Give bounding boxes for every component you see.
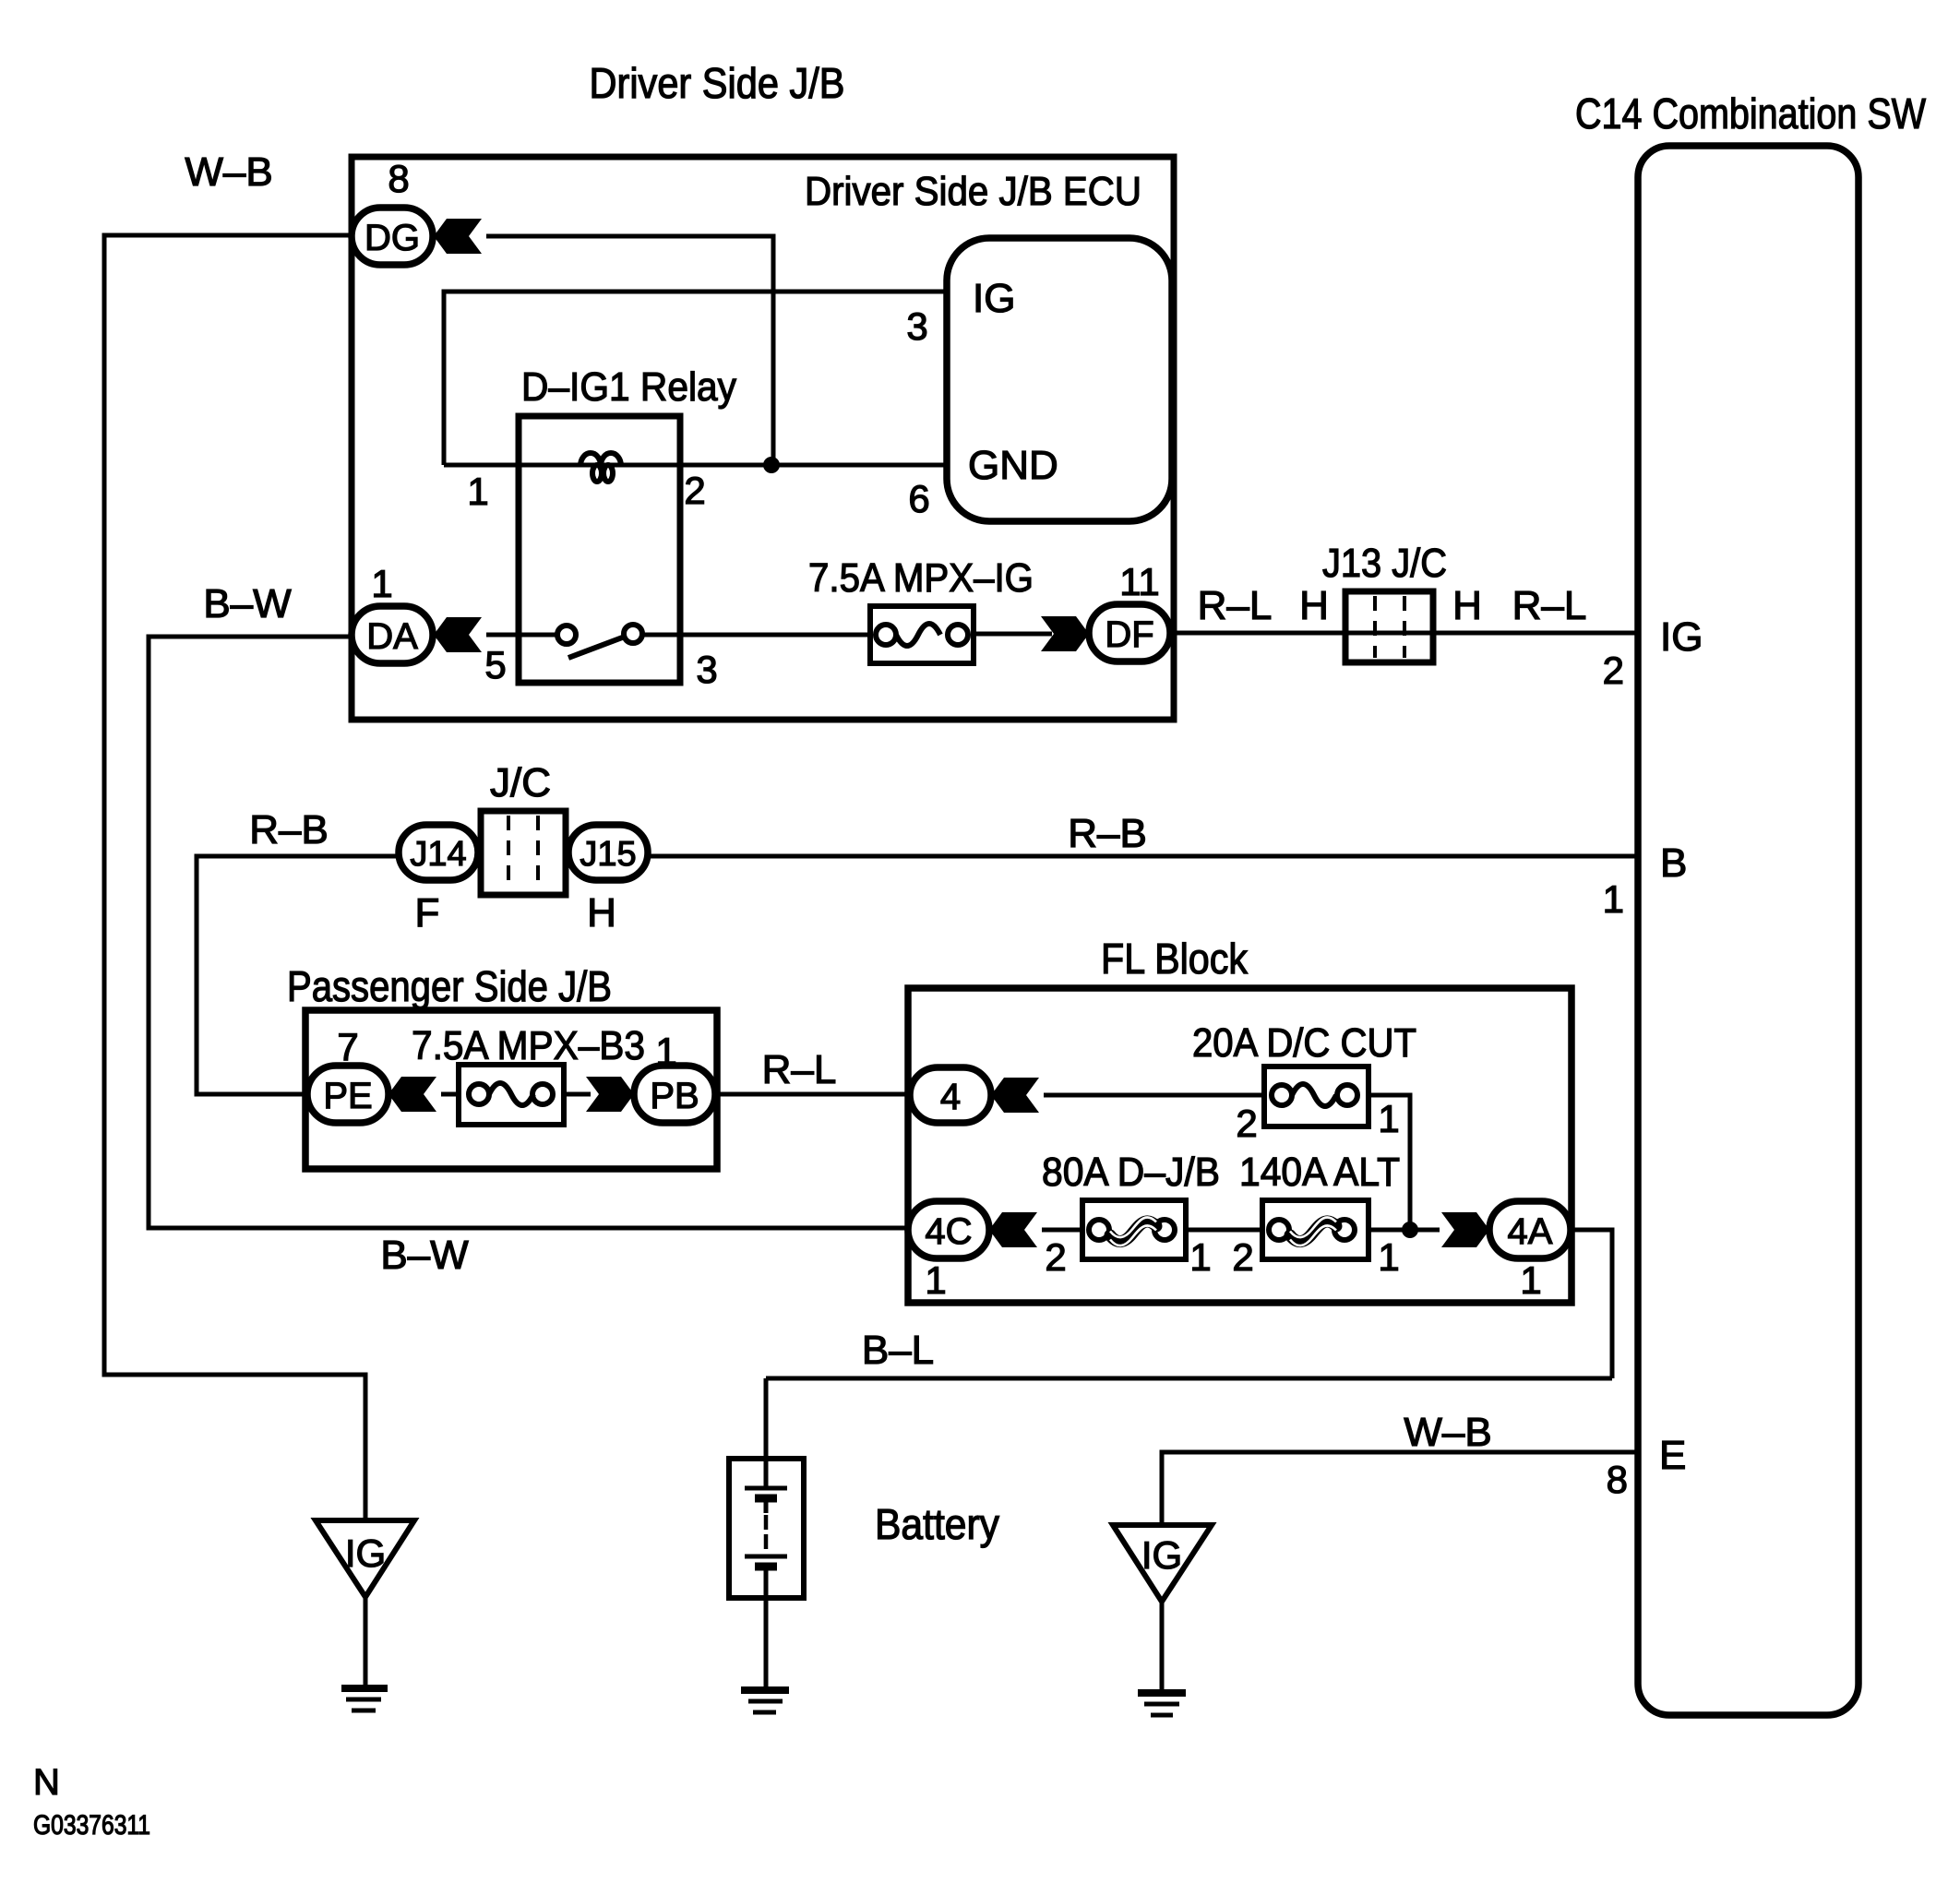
svg-text:GND: GND: [968, 443, 1058, 488]
svg-text:1: 1: [371, 562, 392, 605]
arrow into DF: [1041, 616, 1089, 651]
relay switch contacts: [557, 625, 642, 658]
connector 4: [910, 1067, 991, 1123]
svg-text:1: 1: [925, 1258, 946, 1302]
relay D-IG1 box: [519, 416, 680, 683]
svg-text:R–B: R–B: [1068, 811, 1147, 856]
wire relay coil line to ECU GND pin 6: [444, 463, 947, 468]
svg-text:D–IG1 Relay: D–IG1 Relay: [521, 364, 736, 410]
wire DG to junction and down: [486, 236, 773, 463]
svg-text:H: H: [1299, 583, 1329, 628]
wire 20A fuse to junction at 4A: [1368, 1095, 1410, 1230]
svg-text:2: 2: [684, 469, 705, 512]
svg-text:4A: 4A: [1508, 1211, 1553, 1252]
arrow into PB: [586, 1077, 634, 1112]
junction connector J/C box: [481, 811, 566, 895]
svg-text:B–L: B–L: [862, 1328, 934, 1373]
arrow into 4A: [1441, 1212, 1489, 1247]
svg-text:140A ALT: 140A ALT: [1239, 1150, 1400, 1195]
svg-text:IG: IG: [973, 276, 1015, 321]
wire PE arrow to fuse: [441, 1092, 459, 1097]
wire 80A to 140A: [1186, 1228, 1262, 1233]
svg-text:1: 1: [1378, 1097, 1399, 1140]
svg-text:2: 2: [1232, 1235, 1253, 1279]
connector J15: [568, 825, 648, 880]
connector DG: [352, 208, 433, 265]
svg-text:3: 3: [906, 304, 927, 348]
connector 4A: [1489, 1201, 1571, 1258]
junction node dot: [763, 457, 780, 473]
battery BAT1: [729, 1459, 804, 1598]
wire left IG triangle to ground: [364, 1597, 368, 1686]
wire DA arrow to relay switch: [486, 633, 557, 638]
svg-text:J14: J14: [410, 835, 466, 874]
svg-text:IG: IG: [1141, 1533, 1182, 1577]
junction connector J13: [1345, 591, 1433, 662]
svg-text:B: B: [1660, 840, 1687, 886]
wire R-B left segment down to PE: [197, 856, 399, 1094]
wire W-B from DG down to left IG ground triangle: [104, 235, 365, 1520]
connector PE: [307, 1066, 388, 1123]
connector J14: [399, 825, 478, 880]
right IG ground triangle: [1113, 1525, 1212, 1602]
svg-text:11: 11: [1119, 560, 1160, 603]
svg-text:1: 1: [1378, 1235, 1399, 1279]
wire 4C arrow to 80A fuse: [1042, 1228, 1082, 1233]
wire J15 to combination switch B pin 1: [648, 854, 1638, 859]
arrow into DA: [434, 617, 482, 652]
svg-text:E: E: [1659, 1433, 1686, 1478]
wire fuse to DF arrow: [974, 632, 1052, 637]
arrow into DG: [434, 219, 482, 254]
wire B-L battery feed: [766, 1376, 1612, 1381]
svg-text:FL Block: FL Block: [1101, 935, 1249, 983]
wire relay coil pin1 loop to ECU IG pin 3: [444, 292, 947, 465]
svg-text:C14 Combination SW: C14 Combination SW: [1575, 89, 1926, 137]
FL Block box: [908, 988, 1572, 1303]
svg-text:IG: IG: [345, 1531, 386, 1575]
svg-text:B–W: B–W: [203, 581, 292, 626]
svg-text:5: 5: [484, 643, 506, 686]
Driver Side J/B box: [352, 157, 1174, 720]
ECU IG/GND block U1: [947, 238, 1172, 521]
svg-text:1: 1: [1520, 1258, 1541, 1302]
svg-text:1: 1: [467, 470, 488, 513]
left IG ground triangle: [316, 1520, 414, 1597]
svg-text:R–L: R–L: [762, 1047, 837, 1092]
svg-text:4: 4: [940, 1077, 961, 1117]
svg-text:R–L: R–L: [1198, 583, 1273, 628]
svg-text:1: 1: [1189, 1235, 1211, 1279]
wire fuse to PB arrow: [564, 1092, 591, 1097]
fuse 7.5A MPX-B3: [459, 1065, 564, 1125]
wire battery to ground: [764, 1598, 769, 1686]
svg-text:7.5A MPX–IG: 7.5A MPX–IG: [808, 555, 1034, 601]
svg-text:20A D/C CUT: 20A D/C CUT: [1192, 1020, 1416, 1066]
connector DF: [1089, 604, 1170, 661]
svg-text:80A D–J/B: 80A D–J/B: [1042, 1150, 1220, 1195]
Passenger Side J/B box: [305, 1010, 717, 1169]
svg-text:H: H: [1452, 583, 1482, 628]
svg-text:2: 2: [1603, 649, 1624, 692]
svg-text:IG: IG: [1660, 614, 1703, 660]
wire relay switch to fuse MPX-IG: [642, 633, 870, 638]
ground below left IG triangle: [341, 1688, 388, 1710]
fuse 7.5A MPX-IG: [870, 606, 974, 663]
svg-text:7.5A MPX–B3: 7.5A MPX–B3: [412, 1023, 645, 1068]
svg-text:W–B: W–B: [1404, 1410, 1491, 1455]
fusible link 80A D-J/B: [1082, 1200, 1186, 1259]
svg-text:F: F: [415, 890, 440, 936]
wire 140A to 4A arrow: [1368, 1228, 1440, 1233]
wire W-B from comb SW E pin 8 to right IG triangle: [1162, 1452, 1638, 1525]
connector DA: [352, 606, 433, 663]
svg-text:2: 2: [1236, 1102, 1257, 1145]
svg-text:Battery: Battery: [875, 1500, 999, 1548]
junction dot at 4A branch: [1402, 1222, 1418, 1238]
svg-text:PB: PB: [650, 1076, 699, 1116]
relay coil L1: [580, 453, 621, 482]
svg-text:J/C: J/C: [490, 760, 551, 805]
svg-text:DG: DG: [365, 218, 420, 258]
svg-text:4C: 4C: [925, 1211, 972, 1252]
wire 4A to B-L wire: [1571, 1230, 1612, 1378]
wire right IG triangle to ground: [1160, 1602, 1165, 1689]
svg-text:R–B: R–B: [249, 807, 329, 852]
arrow into 4C: [989, 1212, 1037, 1247]
svg-text:8: 8: [1607, 1458, 1628, 1501]
svg-text:DA: DA: [366, 616, 418, 657]
arrow into 4: [991, 1078, 1039, 1113]
svg-text:7: 7: [337, 1025, 358, 1068]
svg-text:Passenger Side J/B: Passenger Side J/B: [287, 962, 612, 1010]
wire B-W from DA to 4C: [149, 637, 908, 1228]
svg-text:3: 3: [696, 648, 717, 691]
svg-text:6: 6: [908, 477, 929, 520]
connector PB: [634, 1066, 715, 1123]
ground below right IG triangle: [1138, 1693, 1186, 1715]
ground below battery: [741, 1690, 789, 1712]
fusible link 140A ALT: [1262, 1200, 1368, 1259]
wire PB to FL block 4: [715, 1092, 910, 1097]
svg-text:B–W: B–W: [380, 1233, 469, 1278]
wire battery drop from B-L: [764, 1378, 769, 1459]
wire DF to combination switch IG pin 2: [1170, 631, 1638, 636]
combination switch C14 body: [1638, 146, 1858, 1715]
svg-text:Driver Side J/B ECU: Driver Side J/B ECU: [805, 169, 1141, 214]
svg-text:PE: PE: [323, 1076, 372, 1116]
svg-text:2: 2: [1045, 1235, 1066, 1279]
wire 4 arrow to 20A fuse: [1044, 1093, 1264, 1098]
arrow into PE: [388, 1077, 436, 1112]
svg-text:DF: DF: [1105, 614, 1153, 655]
svg-text:J15: J15: [580, 835, 636, 874]
svg-text:G03376311: G03376311: [33, 1810, 150, 1841]
connector 4C: [908, 1201, 989, 1258]
svg-text:R–L: R–L: [1512, 583, 1587, 628]
svg-text:1: 1: [1603, 877, 1624, 921]
fuse 20A D/C CUT: [1264, 1067, 1368, 1126]
svg-text:8: 8: [388, 157, 409, 200]
svg-text:H: H: [587, 890, 616, 936]
svg-text:N: N: [33, 1762, 60, 1803]
svg-text:J13 J/C: J13 J/C: [1322, 541, 1447, 586]
svg-text:Driver Side J/B: Driver Side J/B: [590, 59, 845, 107]
svg-text:W–B: W–B: [185, 149, 272, 195]
